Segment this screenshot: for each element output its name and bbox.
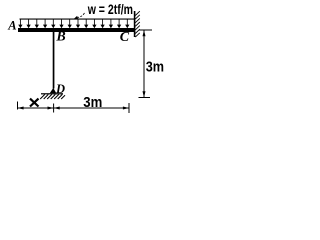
leader to load line [78,13,85,17]
tick left [17,102,19,110]
wall hatching [135,11,140,37]
tick top [139,29,152,31]
tick right [128,103,130,113]
svg-text:3m: 3m [146,60,164,76]
arrow right (3m dim) [123,107,129,110]
bottom dimension line [18,107,130,109]
tick bottom [139,97,151,99]
arrow left (x dim) [18,107,24,110]
svg-text:B: B [55,30,65,45]
arrow down [143,91,146,97]
ground line at D [41,93,63,94]
arrow right (x dim) [48,107,54,110]
pin support at D [50,88,57,93]
right dimension line [143,30,145,98]
svg-text:3m: 3m [83,95,102,111]
arrow left (3m dim) [54,107,60,110]
wall at C [134,11,136,37]
load arrows [19,19,129,27]
member BD [53,32,55,89]
beam ABC [18,28,135,32]
arrow up [143,30,146,36]
svg-text:w = 2tf/m: w = 2tf/m [87,1,133,17]
ground hatching [40,94,65,99]
label x [30,99,39,107]
svg-text:A: A [7,19,16,33]
tick middle [53,104,55,113]
svg-text:C: C [120,30,130,45]
distributed load line w [20,19,135,20]
